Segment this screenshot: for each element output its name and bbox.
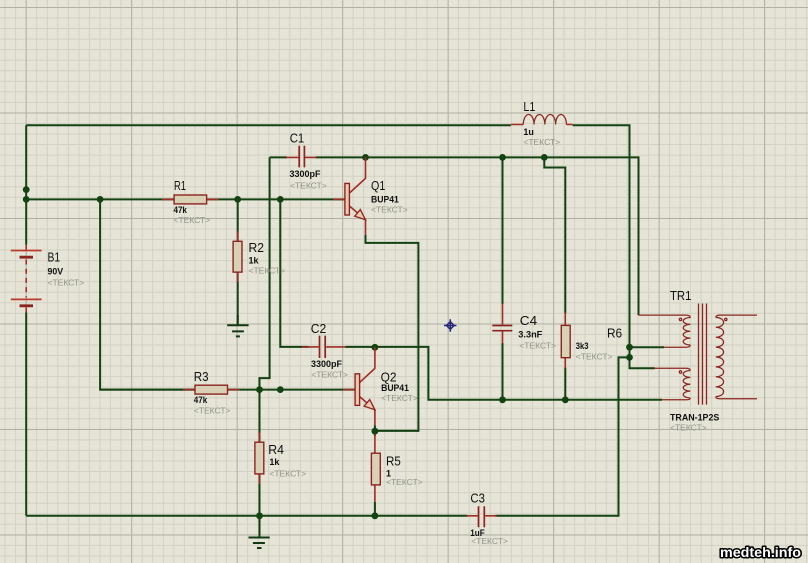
wire top rail y125 bbox=[26, 125, 629, 347]
svg-text:<ТЕКСТ>: <ТЕКСТ> bbox=[249, 265, 286, 275]
wire Q1 base rail y199 bbox=[26, 198, 345, 200]
wire R6 branch jog bbox=[544, 157, 565, 399]
svg-text:C1: C1 bbox=[290, 132, 305, 146]
wire C4 branch bbox=[502, 157, 504, 399]
resistor R1 bbox=[162, 195, 219, 204]
svg-text:<ТЕКСТ>: <ТЕКСТ> bbox=[371, 205, 408, 215]
svg-text:<ТЕКСТ>: <ТЕКСТ> bbox=[386, 477, 423, 487]
svg-text:BUP41: BUP41 bbox=[371, 195, 399, 205]
capacitor C4 bbox=[492, 304, 512, 344]
ground below bottom rail bbox=[249, 516, 270, 548]
svg-text:Q1: Q1 bbox=[371, 179, 385, 193]
resistor R4 bbox=[255, 432, 264, 484]
label R5 bbox=[386, 455, 423, 488]
svg-text:47k: 47k bbox=[194, 395, 208, 405]
transistor Q2 bbox=[343, 347, 375, 425]
ground below R2 bbox=[227, 315, 248, 336]
svg-text:3.3nF: 3.3nF bbox=[518, 329, 543, 339]
resistor R2 bbox=[233, 232, 242, 282]
wire R4 branch down to ground bbox=[259, 390, 261, 537]
label L1 bbox=[523, 100, 560, 147]
inductor L1 bbox=[511, 114, 573, 124]
svg-text:R1: R1 bbox=[174, 179, 186, 193]
svg-text:<ТЕКСТ>: <ТЕКСТ> bbox=[381, 393, 418, 403]
wire cross-couple Q1 base to C2 bbox=[280, 199, 308, 347]
wire C1 to Q2 base jog bbox=[260, 157, 270, 389]
capacitor C1 bbox=[286, 146, 317, 168]
svg-text:3300pF: 3300pF bbox=[290, 169, 321, 179]
label R6 bbox=[576, 327, 622, 362]
label Q2 bbox=[381, 371, 418, 404]
label C3 bbox=[470, 492, 508, 547]
svg-text:R3: R3 bbox=[194, 370, 209, 384]
watermark medteh.info bbox=[720, 545, 801, 560]
svg-text:<ТЕКСТ>: <ТЕКСТ> bbox=[471, 536, 508, 546]
svg-text:<ТЕКСТ>: <ТЕКСТ> bbox=[269, 469, 306, 479]
resistor R3 bbox=[183, 385, 240, 394]
label C2 bbox=[311, 322, 348, 380]
transistor Q1 bbox=[333, 157, 366, 234]
wire C2 right to Q2 collector to rail y400 bbox=[345, 347, 662, 400]
resistor R6 bbox=[561, 313, 570, 369]
wire left vertical battery column bbox=[25, 125, 27, 516]
svg-text:R2: R2 bbox=[249, 241, 265, 255]
label R1 bbox=[174, 179, 211, 225]
svg-text:3300pF: 3300pF bbox=[311, 359, 342, 369]
svg-text:<ТЕКСТ>: <ТЕКСТ> bbox=[523, 137, 560, 147]
wire R2 branch bbox=[237, 199, 239, 324]
label B1 bbox=[48, 251, 85, 288]
node origin marker bbox=[444, 319, 457, 332]
svg-text:L1: L1 bbox=[523, 100, 535, 114]
wire bottom rail y515 bbox=[26, 357, 629, 515]
svg-text:TRAN-1P2S: TRAN-1P2S bbox=[670, 413, 719, 423]
svg-text:B1: B1 bbox=[48, 251, 61, 265]
wire Q2 base rail y389 bbox=[100, 389, 355, 391]
label C1 bbox=[290, 132, 327, 191]
label R3 bbox=[194, 370, 231, 416]
wire x100 down to R3 bbox=[100, 199, 195, 389]
svg-text:1k: 1k bbox=[269, 457, 280, 467]
label R4 bbox=[268, 443, 306, 479]
wire transformer primary feeds bbox=[630, 347, 665, 368]
svg-text:1u: 1u bbox=[523, 127, 534, 137]
capacitor C3 bbox=[467, 506, 497, 527]
svg-text:C4: C4 bbox=[520, 314, 537, 328]
svg-text:<ТЕКСТ>: <ТЕКСТ> bbox=[290, 180, 327, 190]
svg-text:medteh.info: medteh.info bbox=[720, 545, 801, 560]
svg-text:R6: R6 bbox=[607, 327, 622, 341]
label R2 bbox=[249, 241, 286, 275]
svg-text:BUP41: BUP41 bbox=[381, 383, 409, 393]
svg-text:TR1: TR1 bbox=[670, 289, 691, 303]
svg-text:<ТЕКСТ>: <ТЕКСТ> bbox=[576, 352, 613, 362]
svg-text:<ТЕКСТ>: <ТЕКСТ> bbox=[194, 406, 231, 416]
battery B1 bbox=[11, 245, 42, 313]
svg-text:R5: R5 bbox=[386, 455, 401, 469]
svg-text:R4: R4 bbox=[268, 443, 284, 457]
svg-text:1k: 1k bbox=[249, 255, 260, 265]
svg-text:<ТЕКСТ>: <ТЕКСТ> bbox=[174, 215, 211, 225]
resistor R5 bbox=[371, 434, 380, 502]
transformer TR1 bbox=[639, 304, 758, 405]
label Q1 bbox=[371, 179, 408, 215]
svg-text:<ТЕКСТ>: <ТЕКСТ> bbox=[311, 369, 348, 379]
wire Q2 emitter to R5 bbox=[374, 425, 376, 516]
wire Q1 emitter run bbox=[366, 235, 419, 431]
svg-text:C3: C3 bbox=[470, 492, 485, 506]
svg-text:47k: 47k bbox=[174, 205, 188, 215]
svg-text:3k3: 3k3 bbox=[576, 341, 589, 351]
svg-text:<ТЕКСТ>: <ТЕКСТ> bbox=[48, 278, 85, 288]
wire C1 rail y157 bbox=[270, 157, 639, 315]
label TR1 bbox=[670, 289, 719, 433]
svg-text:90V: 90V bbox=[48, 267, 64, 277]
svg-text:C2: C2 bbox=[311, 322, 327, 336]
svg-text:<ТЕКСТ>: <ТЕКСТ> bbox=[670, 423, 707, 433]
label C4 bbox=[518, 314, 556, 351]
svg-text:<ТЕКСТ>: <ТЕКСТ> bbox=[519, 341, 556, 351]
capacitor C2 bbox=[302, 336, 345, 358]
